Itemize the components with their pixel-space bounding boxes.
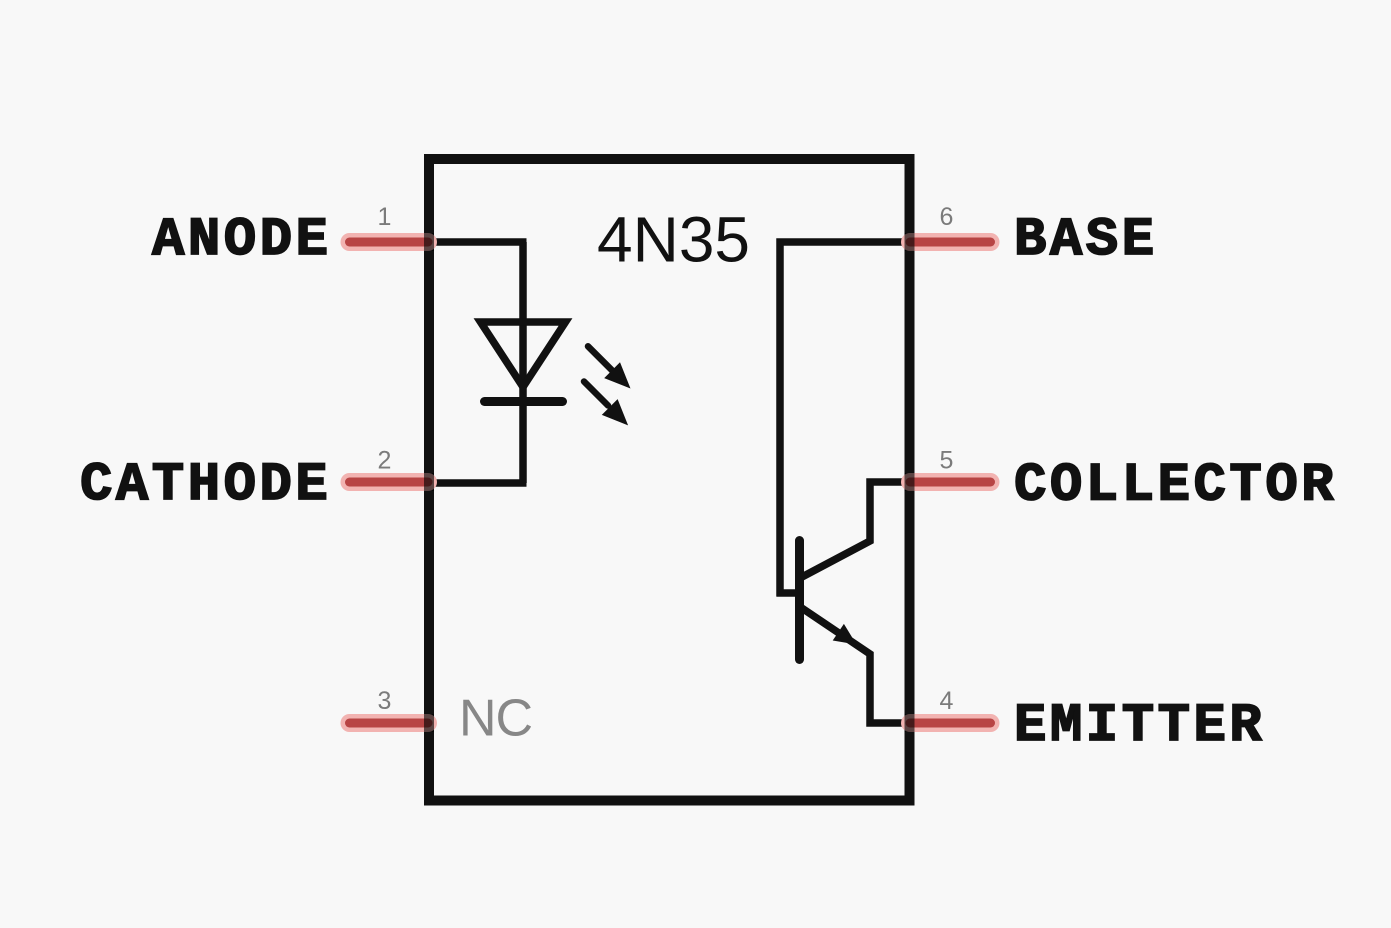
transistor Q1 collector wire to pin5 <box>801 482 909 578</box>
svg-text:3: 3 <box>378 687 392 715</box>
svg-text:6: 6 <box>940 203 954 231</box>
svg-text:2: 2 <box>378 447 392 475</box>
pin 5 stub (COLLECTOR) <box>905 473 991 491</box>
svg-text:4N35: 4N35 <box>597 204 750 276</box>
transistor Q1 base bar <box>795 541 804 660</box>
svg-text:NC: NC <box>459 690 532 748</box>
svg-text:5: 5 <box>940 447 954 475</box>
LED light arrow 2 <box>584 382 628 426</box>
wire anode: pin1 into LED anode <box>429 242 527 483</box>
op-amp U1 body rectangle (4N35 optocoupler package outline) <box>429 159 910 801</box>
svg-text:4: 4 <box>940 687 954 715</box>
svg-text:EMITTER: EMITTER <box>1014 696 1265 757</box>
svg-text:CATHODE: CATHODE <box>80 455 331 516</box>
pin 2 stub (CATHODE) <box>350 473 435 491</box>
pin 1 stub (ANODE) <box>350 233 435 251</box>
wire base: pin6 down to transistor base <box>777 242 910 597</box>
svg-text:1: 1 <box>378 203 392 231</box>
svg-text:COLLECTOR: COLLECTOR <box>1014 456 1337 517</box>
transistor Q1 emitter wire to pin4 <box>801 608 909 724</box>
svg-text:BASE: BASE <box>1014 210 1158 271</box>
diode D1 cathode bar <box>485 397 563 406</box>
pin 4 stub (EMITTER) <box>905 714 991 732</box>
svg-text:ANODE: ANODE <box>152 210 332 271</box>
diode D1 LED triangle <box>481 322 566 387</box>
pin 6 stub (BASE) <box>905 233 991 251</box>
pin 3 stub (NC) <box>350 714 435 732</box>
LED light arrow 1 <box>588 346 631 388</box>
transistor Q1 emitter arrowhead <box>833 624 857 645</box>
